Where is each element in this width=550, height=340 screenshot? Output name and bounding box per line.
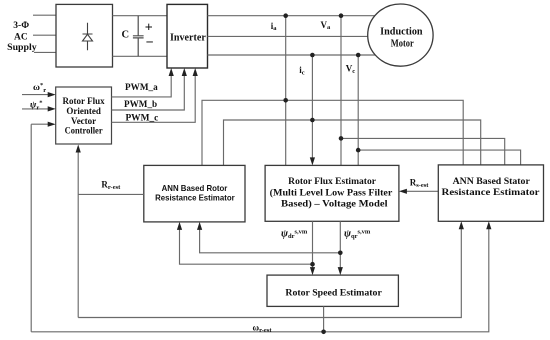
wire psi-dr crossfeed — [180, 230, 313, 265]
svg-text:(Multi Level Low Pass Filter: (Multi Level Low Pass Filter — [270, 188, 393, 198]
wire ic tap — [311, 55, 313, 158]
wire Rr-est output — [78, 193, 144, 195]
wire phase-b supply stub — [33, 34, 56, 36]
wire psi-dr output — [312, 221, 314, 267]
arrow psi-qr into rotor estimator — [197, 222, 202, 230]
svg-text:Motor: Motor — [391, 38, 414, 49]
svg-text:Resistance Estimator: Resistance Estimator — [155, 193, 235, 203]
node omega-r-est junction — [321, 330, 326, 335]
wire flux reference input — [22, 108, 49, 110]
node Va branch junction — [339, 136, 344, 141]
arrow PWM_b into inverter — [182, 68, 187, 76]
svg-text:PWM_a: PWM_a — [125, 83, 158, 93]
svg-text:PWM_c: PWM_c — [125, 113, 158, 123]
node ia branch junction — [283, 98, 288, 103]
wire PWM_a — [112, 76, 172, 97]
induction motor M1 — [368, 4, 433, 66]
diode D1 — [83, 23, 93, 51]
wire phase-c supply stub — [34, 51, 56, 53]
svg-text:Supply: Supply — [7, 43, 37, 53]
rotor flux estimator block — [265, 165, 399, 221]
inverter block — [167, 4, 208, 68]
wire ia branch to estimators — [202, 100, 463, 165]
wire ia tap — [285, 16, 287, 166]
wire phase-a supply stub — [33, 14, 56, 16]
svg-text:C: C — [122, 30, 130, 41]
rotor speed estimator block — [267, 275, 398, 306]
arrow PWM_c into inverter — [193, 68, 198, 76]
capacitor C — [133, 16, 144, 57]
arrow psi-dr into speed estimator — [310, 267, 315, 275]
svg-text:Oriented: Oriented — [66, 106, 101, 116]
svg-text:Induction: Induction — [380, 26, 423, 37]
ANN rotor resistance estimator block — [144, 165, 245, 222]
wire phase-c motor line — [208, 54, 377, 56]
wire Rr-est vertical — [77, 152, 79, 318]
svg-text:Resistance Estimator: Resistance Estimator — [442, 188, 540, 198]
svg-text:AC: AC — [14, 32, 28, 42]
wire speed estimator output — [323, 306, 325, 331]
arrow Rr-est into controller bottom — [76, 145, 81, 153]
svg-text:ANN Based Stator: ANN Based Stator — [453, 177, 530, 187]
wire DC bus bottom — [113, 55, 168, 57]
svg-text:Inverter: Inverter — [170, 33, 206, 44]
wire PWM_b — [112, 76, 185, 111]
svg-text:−: − — [146, 35, 154, 50]
wire psi-qr output — [339, 221, 341, 267]
wire phase-b motor line — [208, 35, 373, 37]
wire Rs-est — [407, 190, 439, 192]
svg-text:+: + — [145, 20, 153, 35]
svg-text:Rotor Speed Estimator: Rotor Speed Estimator — [285, 287, 382, 298]
arrow PWM_a into inverter — [169, 68, 174, 76]
wire Va branch to stator estimator — [341, 138, 505, 165]
wire omega-r-est to controller — [30, 124, 32, 332]
wire phase-a motor line — [208, 15, 377, 17]
wire DC bus top — [113, 15, 168, 17]
wire speed feedback into controller — [31, 123, 48, 125]
svg-text:3-Φ: 3-Φ — [13, 21, 29, 31]
arrow into controller input 3 — [48, 122, 56, 127]
node Vc branch junction — [356, 148, 361, 153]
wire omega-r-est feedback — [31, 229, 489, 332]
ANN stator resistance estimator block — [438, 165, 543, 221]
svg-text:Rotor Flux Estimator: Rotor Flux Estimator — [288, 176, 376, 186]
node Va on phase-a line — [339, 13, 344, 18]
svg-text:PWM_b: PWM_b — [124, 100, 157, 110]
arrow Rs-est into flux estimator — [399, 189, 407, 194]
controller block — [56, 87, 112, 144]
node psi-dr junction — [310, 262, 315, 267]
rectifier block — [56, 4, 113, 67]
wire psi-qr crossfeed — [200, 230, 341, 253]
svg-text:Controller: Controller — [65, 125, 103, 135]
arrow into controller input 1 — [48, 92, 56, 97]
wire Vc tap — [357, 55, 359, 165]
svg-text:Rotor Flux: Rotor Flux — [63, 96, 106, 106]
arrow psi-qr into speed estimator — [338, 267, 343, 275]
wire speed reference input — [22, 94, 49, 96]
arrow psi-dr into rotor estimator — [177, 222, 182, 230]
arrow ic into flux estimator — [310, 157, 315, 165]
node psi-qr junction — [338, 251, 343, 256]
arrow Rr-est into stator estimator — [459, 221, 464, 229]
wire Rr-est crossfeed to stator estimator — [78, 229, 461, 318]
node ia on phase-a line — [283, 13, 288, 18]
node ic on phase-c line — [310, 53, 315, 58]
arrow omega-r-est into stator estimator — [486, 221, 491, 229]
wire PWM_c — [112, 76, 196, 123]
node ic branch junction — [310, 118, 315, 123]
wire Vc branch to stator estimator — [358, 150, 520, 165]
wire Va tap — [340, 16, 342, 166]
svg-text:ANN Based Rotor: ANN Based Rotor — [162, 183, 228, 193]
node Vc on phase-c line — [356, 53, 361, 58]
svg-text:Based) – Voltage Model: Based) – Voltage Model — [281, 199, 388, 209]
svg-text:Vector: Vector — [71, 116, 96, 126]
arrow into controller input 2 — [48, 106, 56, 111]
wire ic branch to estimators — [224, 120, 481, 165]
